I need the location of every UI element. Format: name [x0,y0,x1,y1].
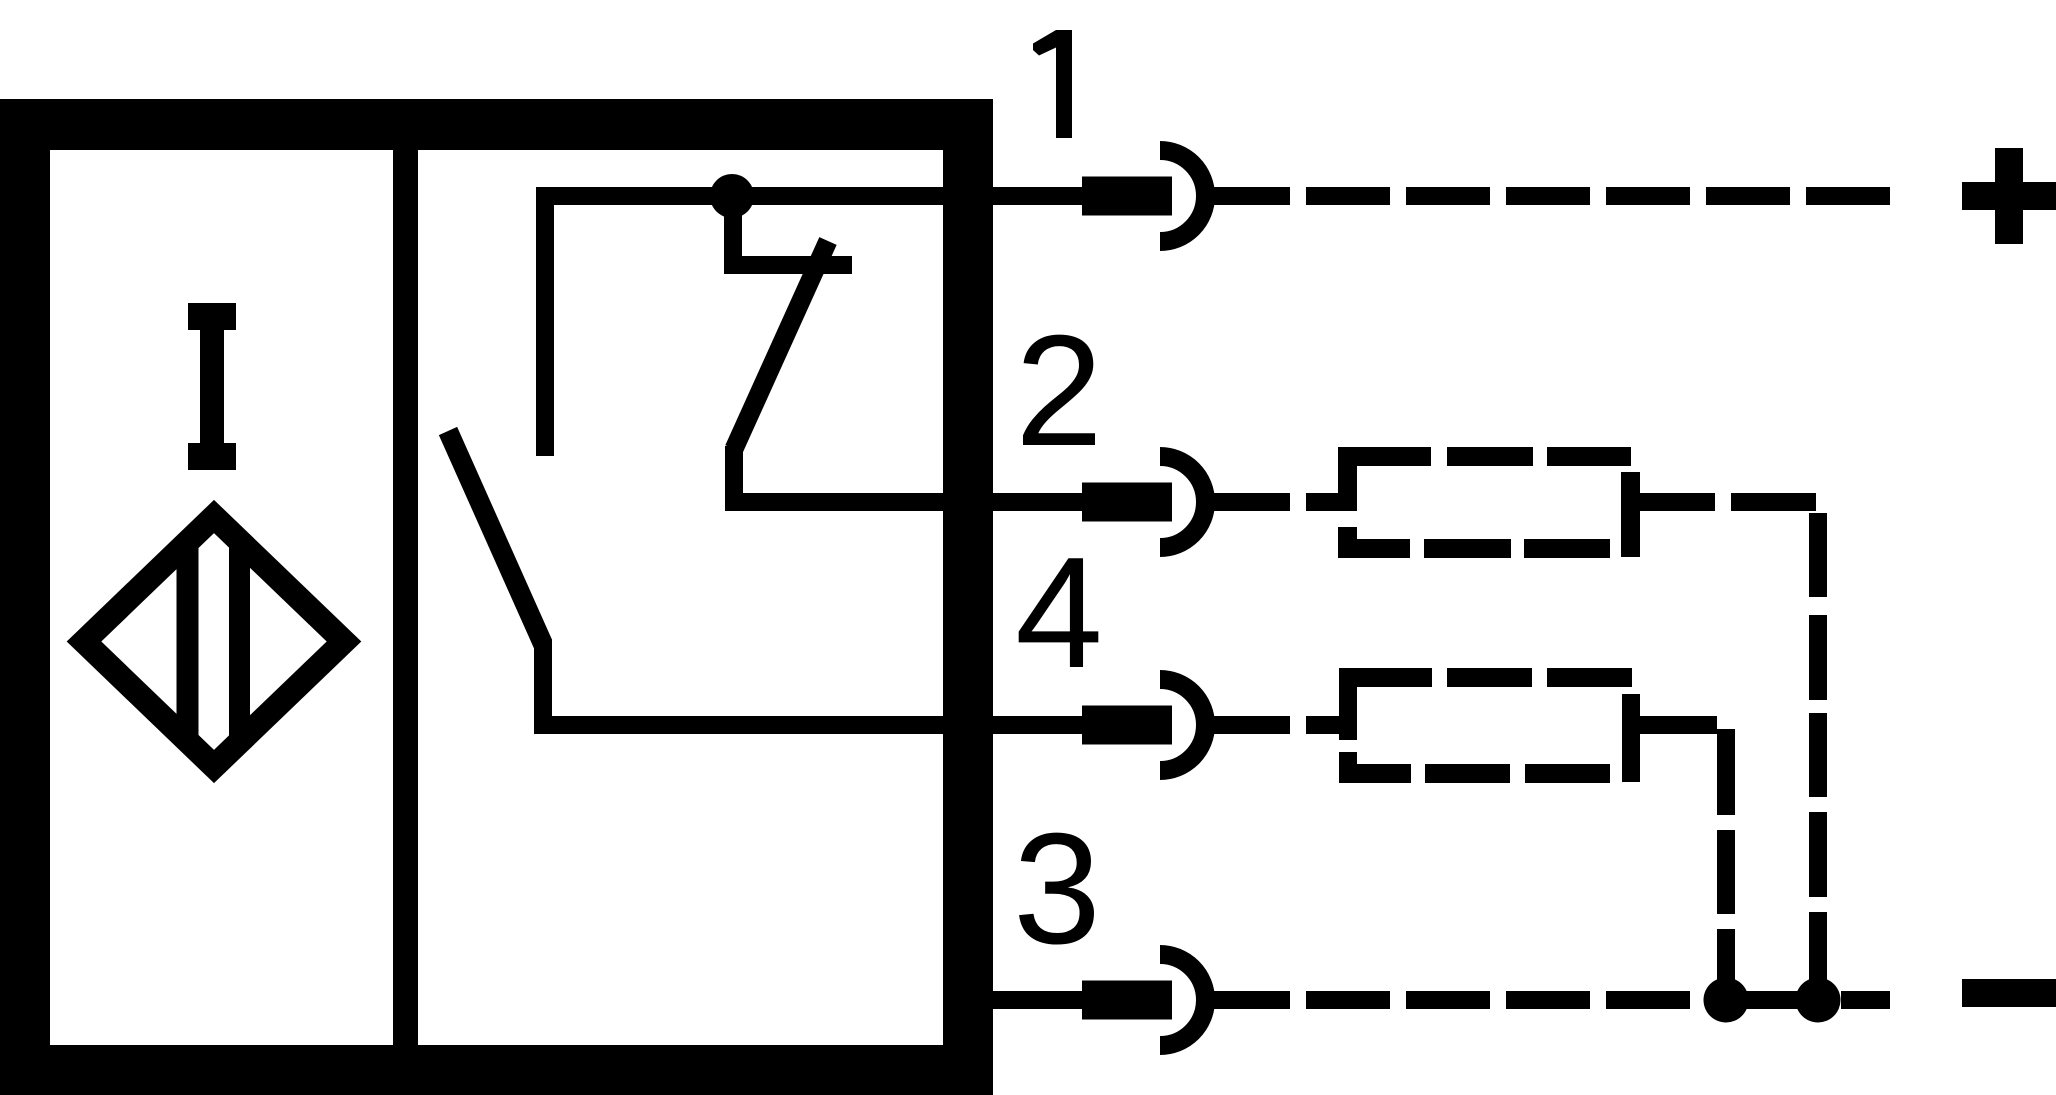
svg-text:2: 2 [1015,303,1103,479]
wire: between junction dots [1726,991,1818,1009]
wire: NC fixed terminal to pin 1 (top line) [545,196,946,456]
+ supply terminal [1962,148,2056,244]
pin 4 terminal stub [1082,706,1172,745]
svg-text:3: 3 [1013,801,1101,977]
pin 2 terminal stub [1082,483,1172,522]
load L2 on pin 4 (dashed box) [1339,668,1640,783]
junction dot B (pin 2 branch) [1796,978,1841,1023]
wire: load L1 to negative rail (dashed) [1640,493,1827,984]
pin 1 connector socket [1160,151,1206,242]
inductive sensor diamond symbol [84,510,344,775]
junction dot on pin-1 wire [710,174,754,218]
wire: pin 1 to + supply (dashed) [1206,187,1890,205]
pin 4 connector socket [1160,680,1206,771]
pin 3 terminal stub [1082,981,1172,1020]
load L1 on pin 2 (dashed box) [1338,447,1640,558]
NO moving contact lever [448,431,543,644]
pin 3 wire [950,991,1082,1009]
sensor housing box with two compartments [0,99,993,1095]
pin 1 terminal stub [1082,177,1172,216]
pin 2 wire [940,493,1082,511]
pin 1 label [1033,30,1072,138]
pin 3 connector socket [1160,955,1206,1046]
svg-text:4: 4 [1015,525,1103,701]
pin 2 connector socket [1160,457,1206,548]
wire: pin 3 to - supply (dashed) [1206,991,1690,1009]
wire: pin 2 to load (dashed) [1206,493,1357,511]
NC moving contact lever [734,241,828,449]
wire: dot B to - terminal (dash) [1841,991,1890,1009]
pin 4 wire [940,716,1082,734]
sensor symbol letter I [188,303,236,470]
- supply terminal [1962,979,2056,1007]
wire: pin 4 to load (dashed) [1206,716,1357,734]
pin 1 wire [940,187,1082,205]
wire: load L2 to negative rail (dashed) [1640,716,1735,1001]
junction dot A (pin 4 branch) [1704,978,1749,1023]
wire: lever pivot to pin 2 [734,446,946,502]
NC fixed contact stub [733,196,852,265]
wire: NO lever to pin 4 [543,640,946,725]
